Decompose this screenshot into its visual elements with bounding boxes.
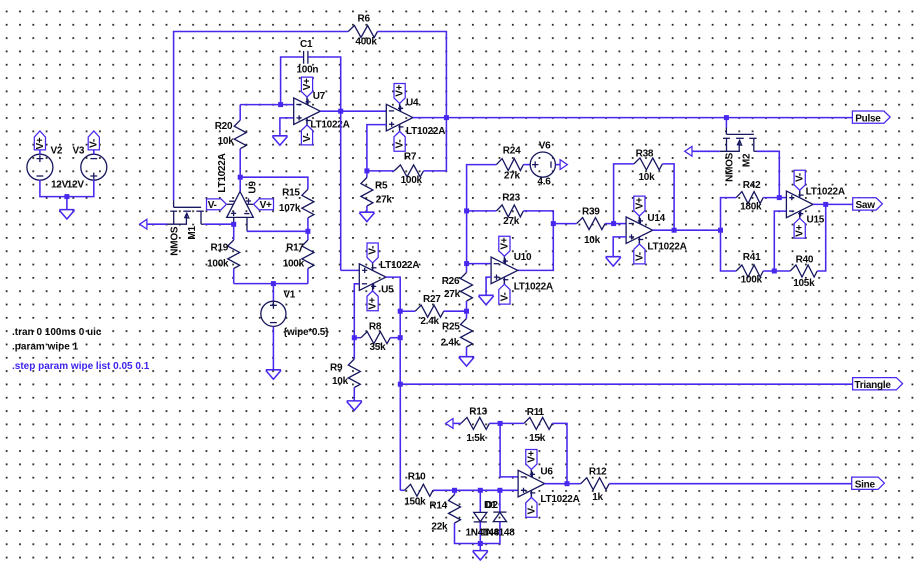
wire R24 right lead [523, 164, 530, 166]
svg-text:M2: M2 [741, 153, 752, 167]
wire U4 output [413, 117, 447, 119]
wire R6 right [378, 32, 447, 118]
svg-text:U9: U9 [247, 181, 258, 194]
svg-text:R11: R11 [527, 407, 545, 418]
svg-text:R14: R14 [429, 501, 447, 512]
junction U14 out / R38 [672, 228, 677, 233]
wire U5 output [386, 277, 400, 311]
junction V1 top [271, 281, 276, 286]
wire M1 to U9 in- [204, 223, 234, 225]
wire R39 right lead [605, 223, 614, 225]
svg-text:V+: V+ [35, 137, 46, 149]
output port Sine [852, 477, 885, 489]
wire V1 top [272, 284, 274, 302]
wire R17 bottom [307, 269, 309, 284]
svg-text:V3: V3 [73, 146, 85, 157]
capacitor C1 [303, 51, 305, 64]
wire U6 output [545, 483, 567, 485]
resistor R5 [361, 178, 373, 207]
net flag V+ below U15 [799, 211, 801, 219]
wire U15 output to Saw port [813, 203, 853, 205]
svg-text:R5: R5 [375, 181, 388, 192]
svg-text:V-: V- [526, 506, 537, 515]
resistor R27 [415, 305, 444, 317]
resistor R12 [581, 478, 610, 490]
wire U7 output to U4 in- [341, 110, 387, 112]
svg-text:27k: 27k [444, 289, 461, 300]
resistor R20 [234, 120, 246, 149]
wire R40 left lead [774, 270, 790, 272]
svg-text:Triangle: Triangle [854, 380, 891, 391]
svg-text:.tran 0 100ms 0 uic: .tran 0 100ms 0 uic [12, 327, 102, 338]
svg-text:R6: R6 [358, 14, 371, 25]
wire U9 output [239, 177, 241, 191]
svg-text:Sine: Sine [855, 479, 876, 490]
svg-text:4.6: 4.6 [537, 177, 551, 188]
svg-text:V6: V6 [539, 141, 551, 152]
svg-text:R17: R17 [286, 243, 304, 254]
resistor R38 [634, 158, 663, 170]
svg-text:R19: R19 [211, 243, 229, 254]
svg-text:V-: V- [368, 246, 379, 255]
junction Triangle tap [398, 382, 403, 387]
resistor R10 [405, 484, 434, 496]
svg-text:10k: 10k [332, 376, 349, 387]
voltage source V2 [27, 154, 53, 180]
net flag V+ above U14 [638, 216, 640, 224]
svg-text:R13: R13 [469, 407, 487, 418]
wire R19 bottom [233, 269, 235, 284]
net flag V- above U5 [372, 263, 374, 271]
wire R8 right lead [390, 337, 400, 339]
junction R26/R25/R27 [464, 309, 469, 314]
net flag V- below U10 [503, 277, 505, 285]
net flag V+ on V2 [34, 131, 45, 150]
junction M2/R42/U15 in+ [777, 195, 782, 200]
svg-text:V+: V+ [368, 297, 379, 309]
wire U5 bottom input down [354, 284, 359, 338]
wire U10 in+ to ground [486, 277, 491, 295]
ground under R25 [459, 357, 474, 366]
wire R5 bottom [366, 206, 368, 212]
net flag V- below U4 [399, 124, 401, 132]
wire R42 left [721, 198, 737, 231]
svg-text:1k: 1k [592, 492, 603, 503]
wire V1 bottom [272, 326, 274, 369]
nmos M2 [725, 127, 727, 134]
resistor R19 [228, 240, 240, 269]
junction U9 output [238, 175, 243, 180]
wire V2 to ground node [40, 180, 67, 197]
junction R13/R11/U6 in- [498, 421, 503, 426]
net flag V+ above U7 [306, 97, 308, 105]
junction R23 left [464, 208, 469, 213]
svg-text:2.4k: 2.4k [420, 316, 439, 327]
wire R17 top [307, 231, 309, 240]
wire R38 left column [614, 164, 634, 224]
port arrow right of V6 [560, 160, 567, 170]
svg-text:27k: 27k [504, 171, 521, 182]
junction M1/R19/U9 [231, 222, 236, 227]
wire U14 in+ to ground [613, 237, 626, 257]
net flag V+ above U4 [399, 103, 401, 111]
svg-text:R25: R25 [442, 322, 460, 333]
op-amp U14 LT1022A [626, 217, 653, 244]
svg-text:V-: V- [634, 252, 645, 261]
wire R38 right to U14 output [662, 164, 674, 230]
resistor R39 [577, 218, 606, 230]
output port Saw [853, 198, 883, 210]
junction C1/U7 in- [278, 102, 283, 107]
svg-text:V+: V+ [302, 78, 313, 90]
wire D2 bottom lead [480, 522, 500, 544]
wire R41 right lead [763, 270, 774, 272]
wire R27 left lead [400, 310, 415, 312]
svg-text:LT1022A: LT1022A [380, 260, 419, 271]
resistor R8 [361, 332, 390, 344]
svg-text:105k: 105k [793, 278, 815, 289]
junction D2 top [497, 488, 502, 493]
port arrow at M2 [685, 146, 692, 156]
wire U14 output [653, 229, 721, 231]
wire U9 in+ to R15/R17 node [247, 230, 308, 232]
junction diode ground rail [478, 541, 483, 546]
svg-text:V+: V+ [795, 224, 806, 236]
resistor R41 [736, 265, 763, 277]
wire U5 out column down [399, 311, 401, 384]
wire to ground rail [479, 544, 481, 551]
svg-text:V1: V1 [283, 290, 295, 301]
svg-text:M1: M1 [187, 226, 198, 240]
wire U7 output down to U5 [340, 111, 342, 270]
svg-text:Saw: Saw [856, 200, 876, 211]
wire R23 right to U10 output [518, 211, 554, 271]
svg-text:U7: U7 [313, 91, 326, 102]
port arrow at M1 source [140, 219, 147, 229]
U9 input pins [233, 217, 235, 224]
wire R8 left lead [354, 337, 361, 339]
port arrow at R13 [446, 419, 453, 429]
resistor R9 [348, 359, 360, 388]
op-amp U5 LT1022A (mirrored) [359, 264, 386, 291]
resistor R6 [348, 26, 377, 38]
wire R11 left lead [500, 422, 524, 424]
svg-text:LT1022A: LT1022A [806, 187, 845, 198]
wire R20 bottom [239, 149, 241, 178]
ground under V1 [266, 370, 281, 379]
svg-text:R40: R40 [796, 255, 814, 266]
svg-text:22k: 22k [431, 522, 448, 533]
net flag V- below U14 [638, 237, 640, 245]
svg-text:U15: U15 [807, 214, 825, 225]
svg-text:R24: R24 [503, 146, 521, 157]
ground under R9 [347, 401, 362, 410]
wire V6 right [555, 164, 560, 166]
wire R10 right to U6 in+ [433, 489, 518, 491]
svg-text:NMOS: NMOS [725, 152, 736, 182]
svg-text:V+: V+ [499, 237, 510, 249]
svg-text:150k: 150k [404, 497, 426, 508]
svg-text:10k: 10k [639, 172, 656, 183]
svg-text:R7: R7 [404, 152, 417, 163]
svg-text:R27: R27 [423, 294, 441, 305]
wire R39 left lead [553, 223, 576, 225]
svg-text:27k: 27k [376, 195, 393, 206]
junction R14 top [452, 488, 457, 493]
ground sine shaper [473, 551, 488, 560]
svg-text:R42: R42 [743, 180, 761, 191]
junction supply ground [64, 194, 69, 199]
wire junction down to U6 in- [500, 423, 518, 477]
wire U7 output [320, 110, 340, 112]
net flag V- above U15 [799, 190, 801, 198]
wire arrow to M2 [692, 150, 720, 152]
svg-text:U14: U14 [647, 213, 665, 224]
svg-text:V-: V- [89, 139, 100, 148]
output port Pulse [852, 111, 890, 123]
svg-text:10k: 10k [584, 235, 601, 246]
svg-text:R23: R23 [502, 193, 520, 204]
wire U7 noninverting input to ground [280, 118, 294, 136]
wire R14 top [454, 490, 456, 494]
svg-text:R9: R9 [330, 363, 343, 374]
ground supply [59, 210, 74, 219]
wire arrow to R13 [453, 422, 461, 424]
svg-text:D2: D2 [486, 500, 499, 511]
resistor R40 [790, 265, 817, 277]
svg-text:LT1022A: LT1022A [540, 494, 579, 505]
wire U15 in+ [779, 197, 786, 199]
wire R14 bottom [455, 523, 481, 544]
svg-text:.param wipe 1: .param wipe 1 [12, 342, 79, 353]
svg-text:R41: R41 [743, 252, 761, 263]
ground at U14 in+ [606, 257, 621, 266]
svg-text:1N4148: 1N4148 [481, 528, 515, 539]
svg-text:180k: 180k [740, 202, 762, 213]
junction R42/R41 split [718, 228, 723, 233]
svg-text:V-: V- [499, 292, 510, 301]
wire C1 left [281, 57, 303, 105]
svg-text:R26: R26 [442, 276, 460, 287]
svg-text:V+: V+ [260, 200, 272, 211]
wire R26 bottom [466, 301, 468, 311]
junction R8 left / R9 / U5 in+ [352, 335, 357, 340]
diode D1 1N4148 [474, 512, 487, 521]
wire R7 right to U4 output [424, 118, 447, 171]
wire U7 inverting input [240, 104, 294, 106]
svg-text:U10: U10 [514, 252, 532, 263]
svg-text:LT1022A: LT1022A [217, 153, 228, 192]
wire U10 in- [467, 263, 492, 265]
svg-text:400k: 400k [355, 37, 377, 48]
ground under R5 [359, 212, 374, 221]
resistor R25 [461, 319, 473, 348]
resistor R14 [449, 495, 461, 524]
net flag V- below U6 [530, 490, 532, 498]
op-amp U6 LT1022A [518, 470, 545, 497]
junction R38/R39/U14 in- [611, 221, 616, 226]
svg-text:NMOS: NMOS [170, 226, 181, 256]
net flag V+ right of U9 [254, 199, 274, 210]
svg-text:V-: V- [795, 173, 806, 182]
svg-text:V+: V+ [634, 197, 645, 209]
svg-text:R15: R15 [282, 188, 300, 199]
wire R40 right to Saw line [817, 204, 826, 271]
junction R8 right [398, 335, 403, 340]
wire to ground [66, 197, 68, 210]
wire R25 top [466, 311, 468, 318]
wire arrow to M1 [147, 223, 167, 225]
wire U4 output to Pulse port [446, 117, 852, 119]
wire R12 left lead [567, 483, 581, 485]
svg-text:U5: U5 [381, 284, 394, 295]
wire R23 left lead [467, 210, 497, 212]
svg-text:100k: 100k [401, 175, 423, 186]
junction D1 top [478, 488, 483, 493]
resistor R11 [524, 417, 553, 429]
wire R42 right lead [763, 197, 779, 199]
wire Triangle line [400, 383, 852, 385]
diode D2 1N4148 [493, 511, 506, 513]
svg-text:LT1022A: LT1022A [406, 126, 445, 137]
svg-text:V-: V- [395, 140, 406, 149]
nmos M1 [173, 200, 175, 207]
resistor R23 [496, 205, 523, 217]
wire D1 top lead [479, 490, 481, 512]
svg-text:R39: R39 [582, 207, 600, 218]
voltage source V3 [81, 154, 107, 180]
resistor R7 [394, 165, 423, 177]
junction U6 out / R11 / R12 [565, 481, 570, 486]
wire R9 bottom [353, 388, 355, 401]
net flag V- on V3 [88, 131, 99, 150]
wire R25 bottom [466, 347, 468, 357]
wire R7 left lead [367, 170, 394, 172]
junction R15/R17/U9 in+ [305, 229, 310, 234]
svg-text:V-: V- [302, 133, 313, 142]
wire V3 to ground node [67, 180, 94, 197]
svg-text:10k: 10k [218, 136, 235, 147]
junction U4 output [444, 115, 449, 120]
ground at U10 in+ [479, 295, 494, 304]
wire U4 in+ down to R7 [367, 125, 387, 171]
ground at U7 in+ [272, 136, 287, 145]
resistor R15 [302, 189, 314, 218]
svg-text:Pulse: Pulse [855, 113, 881, 124]
net flag V+ below U5 [372, 284, 374, 292]
resistor R24 [496, 159, 523, 171]
wire bottom rail R19-R17 [234, 283, 308, 285]
op-amp U10 LT1022A [491, 257, 518, 284]
svg-text:R10: R10 [408, 472, 426, 483]
wire R13 right lead [489, 422, 500, 424]
op-amp U15 LT1022A (mirrored) [786, 191, 813, 218]
wire U15 in- down to R41 [774, 211, 786, 271]
wire R9 top [353, 338, 355, 359]
svg-text:R12: R12 [589, 467, 607, 478]
net flag V- left of U9 [207, 199, 227, 210]
svg-text:27k: 27k [503, 216, 520, 227]
wire R12 right to Sine port [609, 483, 852, 485]
resistor R26 [461, 273, 473, 302]
wire R27 right lead [444, 310, 467, 312]
wire C1 right [309, 57, 341, 111]
svg-text:V-: V- [208, 200, 217, 211]
junction U10 in- [464, 261, 469, 266]
svg-text:2.4k: 2.4k [441, 338, 460, 349]
svg-text:12V: 12V [67, 180, 85, 191]
wire M2 gate [725, 118, 727, 128]
voltage source V1 [261, 301, 286, 326]
output port Triangle [853, 378, 903, 390]
wire U9 out to R15 top [240, 177, 308, 189]
svg-text:{wipe*0.5}: {wipe*0.5} [283, 327, 329, 338]
svg-text:R38: R38 [636, 149, 654, 160]
wire R15 bottom [307, 218, 309, 232]
junction R39 tap [551, 221, 556, 226]
svg-text:LT1022A: LT1022A [310, 119, 349, 130]
svg-text:V+: V+ [526, 450, 537, 462]
svg-text:LT1022A: LT1022A [647, 242, 686, 253]
net flag V+ above U10 [503, 256, 505, 264]
svg-text:R8: R8 [369, 322, 382, 333]
net flag V+ above U6 [530, 469, 532, 477]
svg-text:V+: V+ [395, 84, 406, 96]
wire R41 left [721, 230, 737, 271]
op-amp U7 LT1022A [294, 98, 321, 125]
net flag V- below U7 [306, 118, 308, 126]
svg-text:LT1022A: LT1022A [514, 282, 553, 293]
resistor R42 [736, 192, 763, 204]
wire R20 top [239, 105, 241, 121]
svg-text:15k: 15k [529, 433, 546, 444]
op-amp U4 LT1022A [386, 104, 413, 131]
voltage source V6 [530, 152, 555, 177]
svg-text:1.5k: 1.5k [466, 433, 485, 444]
svg-text:U6: U6 [540, 467, 553, 478]
wire R5 top [366, 171, 368, 178]
svg-text:100k: 100k [207, 259, 229, 270]
wire R11 right to U6 output [552, 423, 567, 483]
wire R19 top [233, 224, 235, 240]
wire column down to R10 [399, 384, 401, 490]
svg-text:R20: R20 [215, 121, 233, 132]
wire R26 top [466, 264, 468, 273]
junction R41/R40/U15 in- [772, 269, 777, 274]
wire into U5 top input [341, 269, 360, 271]
wire D1 bottom lead [479, 522, 481, 544]
wire U14 in- [614, 223, 627, 225]
wire D2 top lead [499, 490, 501, 512]
junction U5 out / R27 [398, 309, 403, 314]
op-amp U9 LT1022A (rotated, output up) [227, 192, 254, 218]
junction R40/Saw [823, 202, 828, 207]
wire R6 left to M1 gate [174, 32, 349, 201]
wire R24 left column [467, 165, 497, 264]
wire R10 left [400, 489, 404, 491]
svg-text:107k: 107k [279, 203, 301, 214]
resistor R17 [302, 240, 314, 269]
svg-text:C1: C1 [300, 39, 313, 50]
junction R5/R7/U4 in+ [364, 168, 369, 173]
svg-text:100n: 100n [297, 65, 319, 76]
svg-text:35k: 35k [370, 342, 387, 353]
svg-text:U4: U4 [406, 98, 419, 109]
svg-text:100k: 100k [283, 259, 305, 270]
junction U7 output [338, 109, 343, 114]
wire M2 source to R42 node [757, 151, 780, 197]
svg-text:100k: 100k [741, 275, 763, 286]
